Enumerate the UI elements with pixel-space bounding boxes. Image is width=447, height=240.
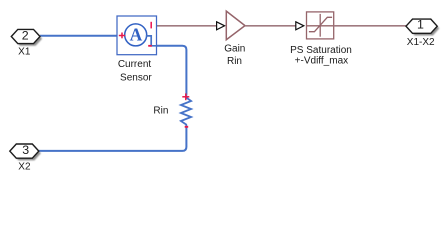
PS arrowhead into Gain: [217, 22, 225, 30]
svg-text:X1-X2: X1-X2: [407, 37, 435, 48]
wire: Current Sensor out to resistor top (electrical, blue): [157, 46, 187, 95]
svg-text:2: 2: [22, 28, 29, 42]
svg-text:Current: Current: [118, 59, 152, 70]
wire: port X1 to Current Sensor (electrical, blue): [40, 35, 128, 37]
input port 3 (X2): [10, 143, 41, 160]
svg-text:PS Saturation: PS Saturation: [290, 45, 352, 56]
current sensor U1: [117, 16, 157, 55]
PS arrowhead into PS Saturation: [296, 22, 304, 30]
PS Saturation block: [307, 12, 334, 39]
PS wire: PS Saturation to output port: [334, 25, 406, 27]
output port 1 (X1-X2): [406, 17, 439, 35]
resistor R_in (zigzag): [181, 95, 191, 127]
sensor circle: [125, 24, 147, 46]
svg-text:Rin: Rin: [227, 56, 242, 67]
sensor minus marker (right port): [148, 45, 152, 47]
svg-text:Rin: Rin: [153, 106, 168, 117]
wire: port X2 to resistor bottom (electrical, blue): [39, 126, 187, 151]
gain block Rin (triangle): [226, 11, 245, 40]
svg-text:X2: X2: [18, 162, 31, 173]
resistor minus marker: [185, 126, 189, 128]
sensor plus marker (left port): [119, 33, 125, 39]
svg-text:A: A: [130, 24, 143, 44]
PS wire: sensor I output to Gain: [157, 25, 217, 27]
svg-text:+-Vdiff_max: +-Vdiff_max: [295, 56, 348, 67]
sensor I port label: [150, 22, 152, 29]
svg-text:Gain: Gain: [224, 44, 245, 55]
sensor internal right lead: [146, 36, 157, 46]
resistor plus marker: [182, 93, 189, 100]
svg-text:Sensor: Sensor: [120, 72, 152, 83]
svg-text:X1: X1: [18, 47, 31, 58]
input port 2 (X1): [11, 28, 42, 45]
svg-text:1: 1: [417, 17, 424, 31]
svg-text:3: 3: [22, 143, 29, 157]
PS wire: Gain to PS Saturation: [245, 25, 296, 27]
